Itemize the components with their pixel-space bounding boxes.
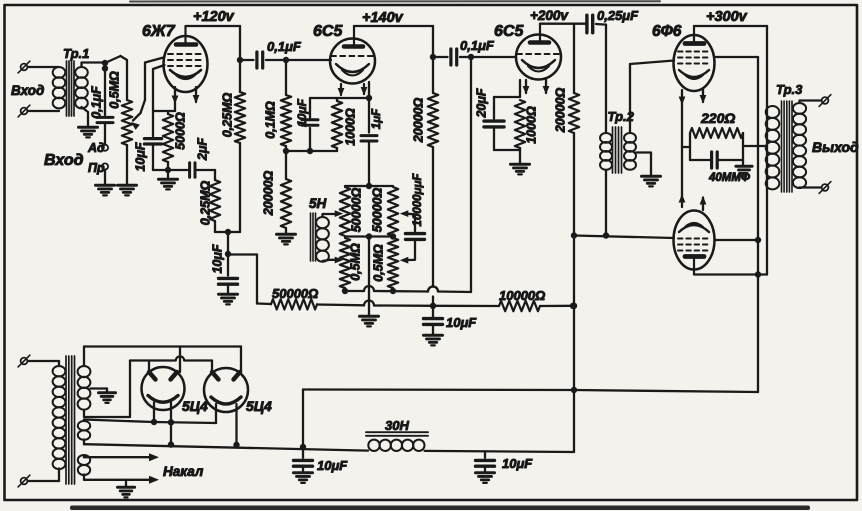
svg-text:1000Ω: 1000Ω	[343, 108, 357, 146]
wire plate to C5	[240, 59, 254, 61]
svg-text:Выход: Выход	[812, 139, 859, 155]
wire rectifier winding bottom	[83, 440, 85, 445]
svg-text:Тр.2: Тр.2	[608, 109, 635, 124]
label 50000Ω (R9)	[370, 188, 384, 233]
tube V1 6Ж7	[164, 26, 208, 92]
svg-text:0,1μF: 0,1μF	[89, 86, 103, 119]
label 10μF (C6)	[295, 98, 309, 127]
wire plate lead V7 right	[240, 347, 242, 373]
wiper C8 to R9	[400, 210, 415, 233]
power transformer core	[66, 356, 75, 484]
label 0,1μF (C5)	[267, 39, 302, 54]
svg-text:50000Ω: 50000Ω	[272, 286, 318, 301]
svg-text:10000μμF: 10000μμF	[412, 173, 424, 227]
label 10μF (C2)	[133, 142, 147, 171]
label 10μF (C4)	[210, 244, 224, 273]
label 30Н	[385, 418, 409, 433]
wire C4 to ground	[227, 284, 229, 293]
svg-text:0,25МΩ: 0,25МΩ	[198, 181, 212, 226]
capacitor C7 1μF	[361, 136, 377, 141]
wire Tr3 sec bottom	[800, 186, 821, 189]
label Тр.3	[776, 82, 803, 97]
svg-text:0,5МΩ: 0,5МΩ	[107, 71, 121, 109]
wire cathode bottom V3	[494, 150, 520, 163]
label 0,25МΩ (R4)	[198, 181, 212, 226]
heater stub right lower	[700, 196, 707, 210]
wire left plates bus	[130, 356, 212, 360]
label +200v	[530, 8, 569, 23]
svg-text:10μF: 10μF	[210, 244, 224, 273]
label Тр.1	[63, 46, 89, 61]
rectifier tube V7 5Ц4	[204, 368, 248, 412]
ground below C9	[424, 335, 443, 345]
heater arrow right V3	[543, 80, 550, 95]
node Пр terminal	[102, 163, 108, 169]
wire grid return x471	[468, 54, 474, 292]
svg-text:10μF: 10μF	[295, 98, 309, 127]
svg-text:10000Ω: 10000Ω	[499, 288, 545, 303]
resistor R14 20000Ω	[428, 93, 438, 147]
wire Tr2 mid tap	[636, 153, 651, 176]
transformer Tr2 core	[613, 127, 622, 173]
inductor 30Н choke	[368, 440, 424, 451]
wire RC left side	[689, 133, 691, 160]
capacitor C14 10μF	[294, 390, 313, 472]
label +140v	[362, 10, 404, 26]
svg-text:20000Ω: 20000Ω	[261, 171, 275, 217]
wire x433 to C10	[433, 56, 448, 58]
label 20000Ω (R6)	[261, 171, 275, 217]
wire cathode V6 right	[170, 403, 172, 423]
wire grid 6Ж7	[145, 58, 164, 101]
label 6С5	[313, 23, 343, 40]
label 0,5МΩ (R11)	[371, 244, 385, 282]
wire supply row end	[540, 303, 576, 309]
label 10μF (C9)	[446, 315, 477, 330]
wire HV center tap	[91, 389, 108, 392]
svg-text:Тр.3: Тр.3	[776, 82, 803, 97]
wiper 5Н to R10	[323, 257, 344, 264]
ground below R6	[277, 234, 296, 244]
label 6Ж7	[142, 23, 176, 40]
label 20μF	[474, 88, 488, 118]
wire cathode row 6С5	[310, 95, 372, 101]
resistor R7 1000Ω	[332, 98, 342, 151]
transformer Tr3 core	[782, 101, 793, 192]
label 20000Ω (R16)	[553, 88, 567, 134]
label Накал	[163, 464, 204, 479]
wire HV top rail	[84, 345, 241, 347]
wire +200 rail	[540, 23, 585, 25]
resistor R8 50000Ω	[340, 187, 350, 236]
svg-text:220Ω: 220Ω	[700, 110, 735, 126]
wiper arm of R1	[131, 100, 145, 130]
wire mains top	[29, 361, 60, 366]
ground HV center tap	[99, 393, 116, 403]
svg-text:50000Ω: 50000Ω	[370, 188, 384, 233]
transformer Tr2 primary	[600, 133, 612, 236]
label 5Ц4 (V6)	[182, 398, 208, 414]
mains terminal top	[18, 355, 30, 367]
wire supply row left	[257, 302, 271, 305]
power transformer HV winding	[78, 347, 91, 410]
svg-text:30Н: 30Н	[385, 418, 409, 433]
wire C1 to Ад terminal	[104, 123, 106, 145]
svg-text:6С5: 6С5	[494, 23, 524, 40]
svg-text:+200v: +200v	[530, 8, 569, 23]
wire plate lead V7 left	[211, 361, 213, 373]
wiper 5Н to R8	[323, 210, 344, 217]
wire RC to Tr3 tap	[743, 145, 767, 147]
wire cathode V7 left	[215, 404, 217, 423]
heater bus left 6Ф6	[679, 90, 686, 207]
wire screen to supply row	[228, 255, 257, 304]
label 20000Ω (R14)	[411, 98, 425, 144]
capacitor C10 0,1μF	[451, 49, 457, 65]
ground cathode V3	[511, 164, 530, 174]
wire plate rail +120	[186, 25, 240, 27]
power transformer primary	[53, 366, 66, 469]
heater arrow left V3	[523, 80, 530, 95]
potentiometer R11 0,5МΩ	[388, 238, 398, 288]
svg-text:0,5МΩ: 0,5МΩ	[348, 243, 362, 281]
ground tone network	[360, 316, 379, 326]
wire cathode to tone stack	[368, 82, 370, 133]
wire cathode bus top	[84, 419, 216, 426]
capacitor C11 20μF	[484, 97, 504, 150]
wire R4 to node	[214, 221, 216, 232]
tube V3 6С5	[516, 24, 561, 80]
rectifier tube V6 5Ц4	[142, 367, 185, 410]
label 0,5МΩ	[107, 71, 121, 109]
wire input bottom to Tr1	[29, 110, 54, 112]
wire +300 rail	[694, 25, 767, 27]
capacitor C13 40ММФ	[690, 152, 743, 168]
wire heater to ground	[125, 480, 127, 486]
resistor R9 50000Ω	[388, 187, 398, 236]
ground Tr2	[642, 176, 661, 186]
svg-text:0,25МΩ: 0,25МΩ	[220, 93, 234, 138]
svg-text:6Ж7: 6Ж7	[142, 23, 176, 40]
svg-text:6Ф6: 6Ф6	[652, 23, 682, 40]
resistor R6 20000Ω	[281, 151, 291, 233]
wire heater bottom arrow	[84, 475, 159, 484]
wire +140 rail	[354, 25, 433, 27]
wire Пр to ground	[104, 170, 106, 184]
wire screen upper 6Ф6	[715, 56, 759, 58]
resistor R16 20000Ω	[569, 24, 579, 133]
label Выход	[812, 139, 859, 155]
label 6С5 (V3)	[494, 23, 524, 40]
resistor R2 0,25МΩ	[235, 92, 245, 143]
wire mains bottom	[29, 469, 60, 482]
wire cathode to RC	[682, 146, 690, 148]
label 10000Ω	[499, 288, 545, 303]
wire Tr2 to lower 6Ф6 grid	[574, 236, 674, 239]
svg-text:5Н: 5Н	[309, 196, 327, 211]
wire C5 to 6С5 grid	[266, 57, 331, 63]
svg-text:1μF: 1μF	[371, 108, 383, 129]
wire plate column x240	[239, 26, 241, 92]
heater arrow left V1	[172, 87, 179, 111]
label 50000Ω (R12)	[272, 286, 318, 301]
ground under Tr1 secondary	[79, 127, 98, 137]
wire to cathode cap	[152, 111, 154, 137]
label 50000Ω (R8)	[349, 188, 363, 233]
wire supply row mid	[317, 301, 436, 309]
capacitor C6 10μF cathode	[302, 98, 318, 151]
wire C3 to R4	[195, 170, 215, 180]
resistor R4 0,25МΩ	[210, 180, 220, 221]
svg-text:0,1МΩ: 0,1МΩ	[263, 101, 277, 139]
transformer Tr1 primary	[53, 67, 66, 111]
ground below Пр	[96, 185, 115, 195]
svg-text:20μF: 20μF	[474, 88, 488, 118]
tube V4 6Ф6 upper	[674, 26, 715, 91]
svg-text:+140v: +140v	[362, 10, 404, 26]
label +120v	[193, 9, 235, 25]
transformer Tr1 core	[67, 61, 75, 116]
output terminal bottom	[819, 182, 831, 194]
wire plate lead V6 left	[148, 361, 150, 373]
input terminal bottom	[18, 105, 30, 117]
ground heater winding	[118, 487, 135, 497]
input terminal top	[18, 61, 30, 73]
wire plate lead V6 right	[179, 347, 181, 373]
wiper C8 to R11	[400, 239, 415, 263]
resistor R15 1000Ω	[515, 100, 525, 150]
node switch junction	[102, 65, 108, 71]
label Вход (lower)	[44, 152, 84, 169]
wire RC right side	[742, 133, 744, 160]
label 5Н	[309, 196, 327, 211]
wire tone bottom row	[342, 286, 471, 294]
label 0,5МΩ (R10)	[348, 243, 362, 281]
capacitor C5 0,1μF	[257, 52, 263, 68]
resistor R5 0,1МΩ	[281, 95, 291, 146]
label 40ММФ	[708, 172, 750, 184]
wire cathode V7 right	[233, 404, 239, 448]
label Пр	[88, 161, 105, 175]
label 0,25μF	[597, 8, 639, 23]
svg-text:0,1μF: 0,1μF	[267, 39, 302, 54]
svg-text:0,5МΩ: 0,5МΩ	[371, 244, 385, 282]
wire input top to Tr1	[29, 66, 54, 68]
resistor R3 5000Ω	[163, 111, 173, 170]
power transformer rectifier winding	[78, 420, 90, 440]
heater arrow left V2	[338, 84, 345, 97]
wire bias row y151	[286, 148, 337, 154]
wire node to C4	[225, 232, 231, 257]
svg-text:10μF: 10μF	[446, 315, 477, 330]
svg-text:5000Ω: 5000Ω	[173, 112, 187, 150]
wire screen lower 6Ф6	[715, 239, 759, 241]
wire cathode row y111	[153, 110, 175, 112]
wire B+ bottom row	[303, 390, 758, 393]
wire C10 to grid	[460, 56, 516, 58]
svg-text:Тр.1: Тр.1	[63, 46, 89, 61]
wire DC rail after choke	[425, 451, 574, 452]
ground RC network	[736, 160, 752, 176]
wire cathode V3	[494, 80, 520, 97]
wire main DC rail	[84, 444, 368, 450]
wire supply row right	[433, 305, 499, 308]
svg-text:Вход: Вход	[44, 152, 84, 169]
wire screen stub 6Ж7	[153, 65, 165, 110]
svg-text:20000Ω: 20000Ω	[411, 98, 425, 144]
svg-text:Накал: Накал	[163, 464, 204, 479]
label 10μF (C14)	[317, 458, 348, 473]
capacitor C2 10μF	[144, 139, 161, 144]
label 6Ф6	[652, 23, 682, 40]
label Вход	[11, 83, 44, 98]
svg-text:Пр: Пр	[88, 161, 105, 175]
ground cathode 6Ж7	[159, 170, 178, 189]
transformer Tr3 primary	[766, 106, 780, 189]
wire tone mid row	[345, 233, 396, 239]
wire R5 to node	[283, 146, 289, 154]
svg-text:20000Ω: 20000Ω	[553, 88, 567, 134]
wire C7 down to tone network	[366, 141, 372, 189]
wire V6 cathode drop	[168, 422, 174, 448]
wire mid node to ground	[368, 237, 370, 316]
switch S1 blade	[102, 56, 121, 66]
svg-text:6С5: 6С5	[313, 23, 343, 40]
heater stub right upper	[700, 89, 707, 104]
inductor 5Н core	[311, 213, 316, 261]
output terminal top	[819, 95, 831, 107]
wire cathode V6 left	[153, 403, 155, 423]
label 1000Ω (R15)	[524, 106, 538, 144]
wire grid leak column	[285, 60, 287, 95]
label 2μF	[195, 138, 209, 161]
wire screen node row	[215, 229, 240, 235]
svg-text:+120v: +120v	[193, 9, 235, 25]
label 0,1μF (input)	[89, 86, 103, 119]
svg-text:Вход: Вход	[11, 83, 44, 98]
ground below volume pot	[118, 185, 137, 195]
label 220Ω	[700, 110, 735, 126]
wire tone top row	[345, 185, 393, 187]
heater arrow right V2	[361, 84, 368, 96]
resistor R12 50000Ω	[271, 299, 317, 309]
tube V5 6Ф6 lower	[674, 211, 715, 275]
mains terminal bottom	[18, 475, 30, 487]
node Tr2 bottom	[603, 232, 609, 238]
svg-text:2μF: 2μF	[195, 138, 209, 161]
transformer Tr2 secondary	[624, 61, 674, 170]
label 10μF (C15)	[502, 456, 533, 471]
capacitor C15 10μF	[476, 451, 495, 471]
choke 30Н core	[366, 432, 428, 436]
wire switch to C1	[104, 63, 106, 115]
wire screen bus	[755, 57, 761, 392]
wire R2 to screen node	[239, 143, 241, 232]
svg-text:10μF: 10μF	[317, 458, 348, 473]
wire heater top arrow	[84, 453, 159, 461]
svg-text:Ад: Ад	[87, 141, 105, 155]
node Ад terminal	[102, 145, 108, 151]
svg-text:0,25μF: 0,25μF	[597, 8, 639, 23]
wire C2 down	[152, 144, 154, 170]
label 5000Ω	[173, 112, 187, 150]
svg-text:5Ц4: 5Ц4	[246, 398, 272, 414]
wire HV bottom	[84, 361, 130, 418]
capacitor C4 10μF screen	[219, 254, 238, 284]
label 0,25МΩ (R2)	[220, 93, 234, 138]
label 1000Ω (R7)	[343, 108, 357, 146]
node plate-coupling junction	[237, 57, 243, 63]
label 5Ц4 (V7)	[246, 398, 272, 414]
label +300v	[706, 9, 748, 25]
label 1μF	[371, 108, 383, 129]
label Ад	[87, 141, 105, 155]
wire switch to volume pot	[121, 56, 128, 100]
tube V2 6С5	[330, 26, 375, 84]
wire Tr3 primary axis	[766, 26, 768, 275]
wire x433 down	[428, 147, 438, 317]
label 0,1μF (C10)	[460, 38, 495, 53]
resistor R17 220Ω	[690, 128, 743, 138]
wire x433 top	[430, 26, 436, 93]
svg-text:1000Ω: 1000Ω	[524, 106, 538, 144]
wire C12 to Tr2	[596, 24, 606, 133]
heater arrow right V1	[193, 87, 200, 104]
label Тр.2	[608, 109, 635, 124]
svg-text:50000Ω: 50000Ω	[349, 188, 363, 233]
inductor 5Н	[316, 217, 329, 262]
svg-text:5Ц4: 5Ц4	[182, 398, 208, 414]
wire pot to ground	[126, 145, 128, 184]
resistor R13 10000Ω	[499, 301, 540, 311]
wire C9 to ground	[432, 324, 434, 334]
ground below C15	[476, 473, 495, 483]
label 10000μμF	[412, 173, 424, 227]
ground below C4	[219, 294, 238, 304]
wire main B+ column	[571, 133, 577, 452]
capacitor C9 10μF	[424, 319, 443, 325]
label 0,1МΩ	[263, 101, 277, 139]
svg-text:+300v: +300v	[706, 9, 748, 25]
svg-text:10μF: 10μF	[133, 142, 147, 171]
potentiometer R1 0,5МΩ	[122, 100, 132, 145]
ground below C14	[294, 473, 313, 483]
svg-text:0,1μF: 0,1μF	[460, 38, 495, 53]
transformer Tr3 secondary	[793, 103, 806, 188]
wire anode lower 6Ф6	[694, 273, 767, 275]
capacitor C12 0,25μF	[587, 15, 593, 33]
svg-text:10μF: 10μF	[502, 456, 533, 471]
potentiometer R10 0,5МΩ	[340, 238, 350, 288]
power transformer heater winding	[78, 455, 90, 475]
capacitor C8 10000μμF	[406, 234, 425, 240]
wire Tr3 sec top	[800, 101, 821, 104]
capacitor C3 2μF	[190, 163, 195, 177]
wire cathode bottom row	[153, 167, 189, 173]
transformer Tr1 secondary	[75, 63, 105, 127]
capacitor C1 0,1μF	[97, 117, 113, 122]
